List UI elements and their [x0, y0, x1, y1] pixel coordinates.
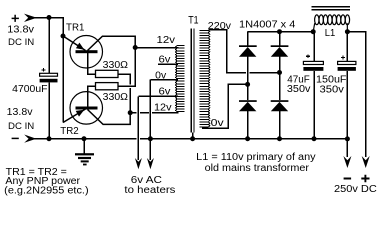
svg-text:L1 = 110v primary of any: L1 = 110v primary of any [196, 152, 316, 163]
svg-text:330Ω: 330Ω [103, 92, 128, 103]
svg-text:4700uF: 4700uF [12, 84, 47, 95]
svg-text:13.8v: 13.8v [7, 25, 34, 36]
svg-text:TR1: TR1 [66, 22, 84, 33]
svg-text:220v: 220v [208, 21, 231, 32]
svg-text:(e.g.2N2955 etc.): (e.g.2N2955 etc.) [4, 185, 88, 196]
svg-text:0v: 0v [211, 118, 225, 129]
svg-text:1N4007 x 4: 1N4007 x 4 [239, 20, 296, 31]
svg-text:350v: 350v [320, 84, 344, 95]
svg-text:TR2: TR2 [60, 126, 78, 137]
svg-text:330Ω: 330Ω [103, 60, 128, 71]
svg-text:DC IN: DC IN [8, 37, 34, 47]
svg-text:250v DC: 250v DC [334, 184, 377, 195]
svg-text:T1: T1 [188, 14, 198, 26]
svg-text:DC IN: DC IN [8, 121, 34, 131]
svg-text:12v: 12v [154, 102, 172, 113]
svg-text:13.8v: 13.8v [7, 107, 33, 118]
svg-text:L1: L1 [325, 27, 336, 39]
svg-text:to heaters: to heaters [124, 185, 175, 196]
svg-text:0v: 0v [155, 71, 166, 82]
svg-text:12v: 12v [157, 35, 176, 46]
svg-text:6v: 6v [159, 55, 171, 66]
svg-text:350v: 350v [287, 84, 311, 95]
svg-text:6v: 6v [159, 87, 171, 98]
svg-text:old mains transformer: old mains transformer [205, 163, 310, 174]
